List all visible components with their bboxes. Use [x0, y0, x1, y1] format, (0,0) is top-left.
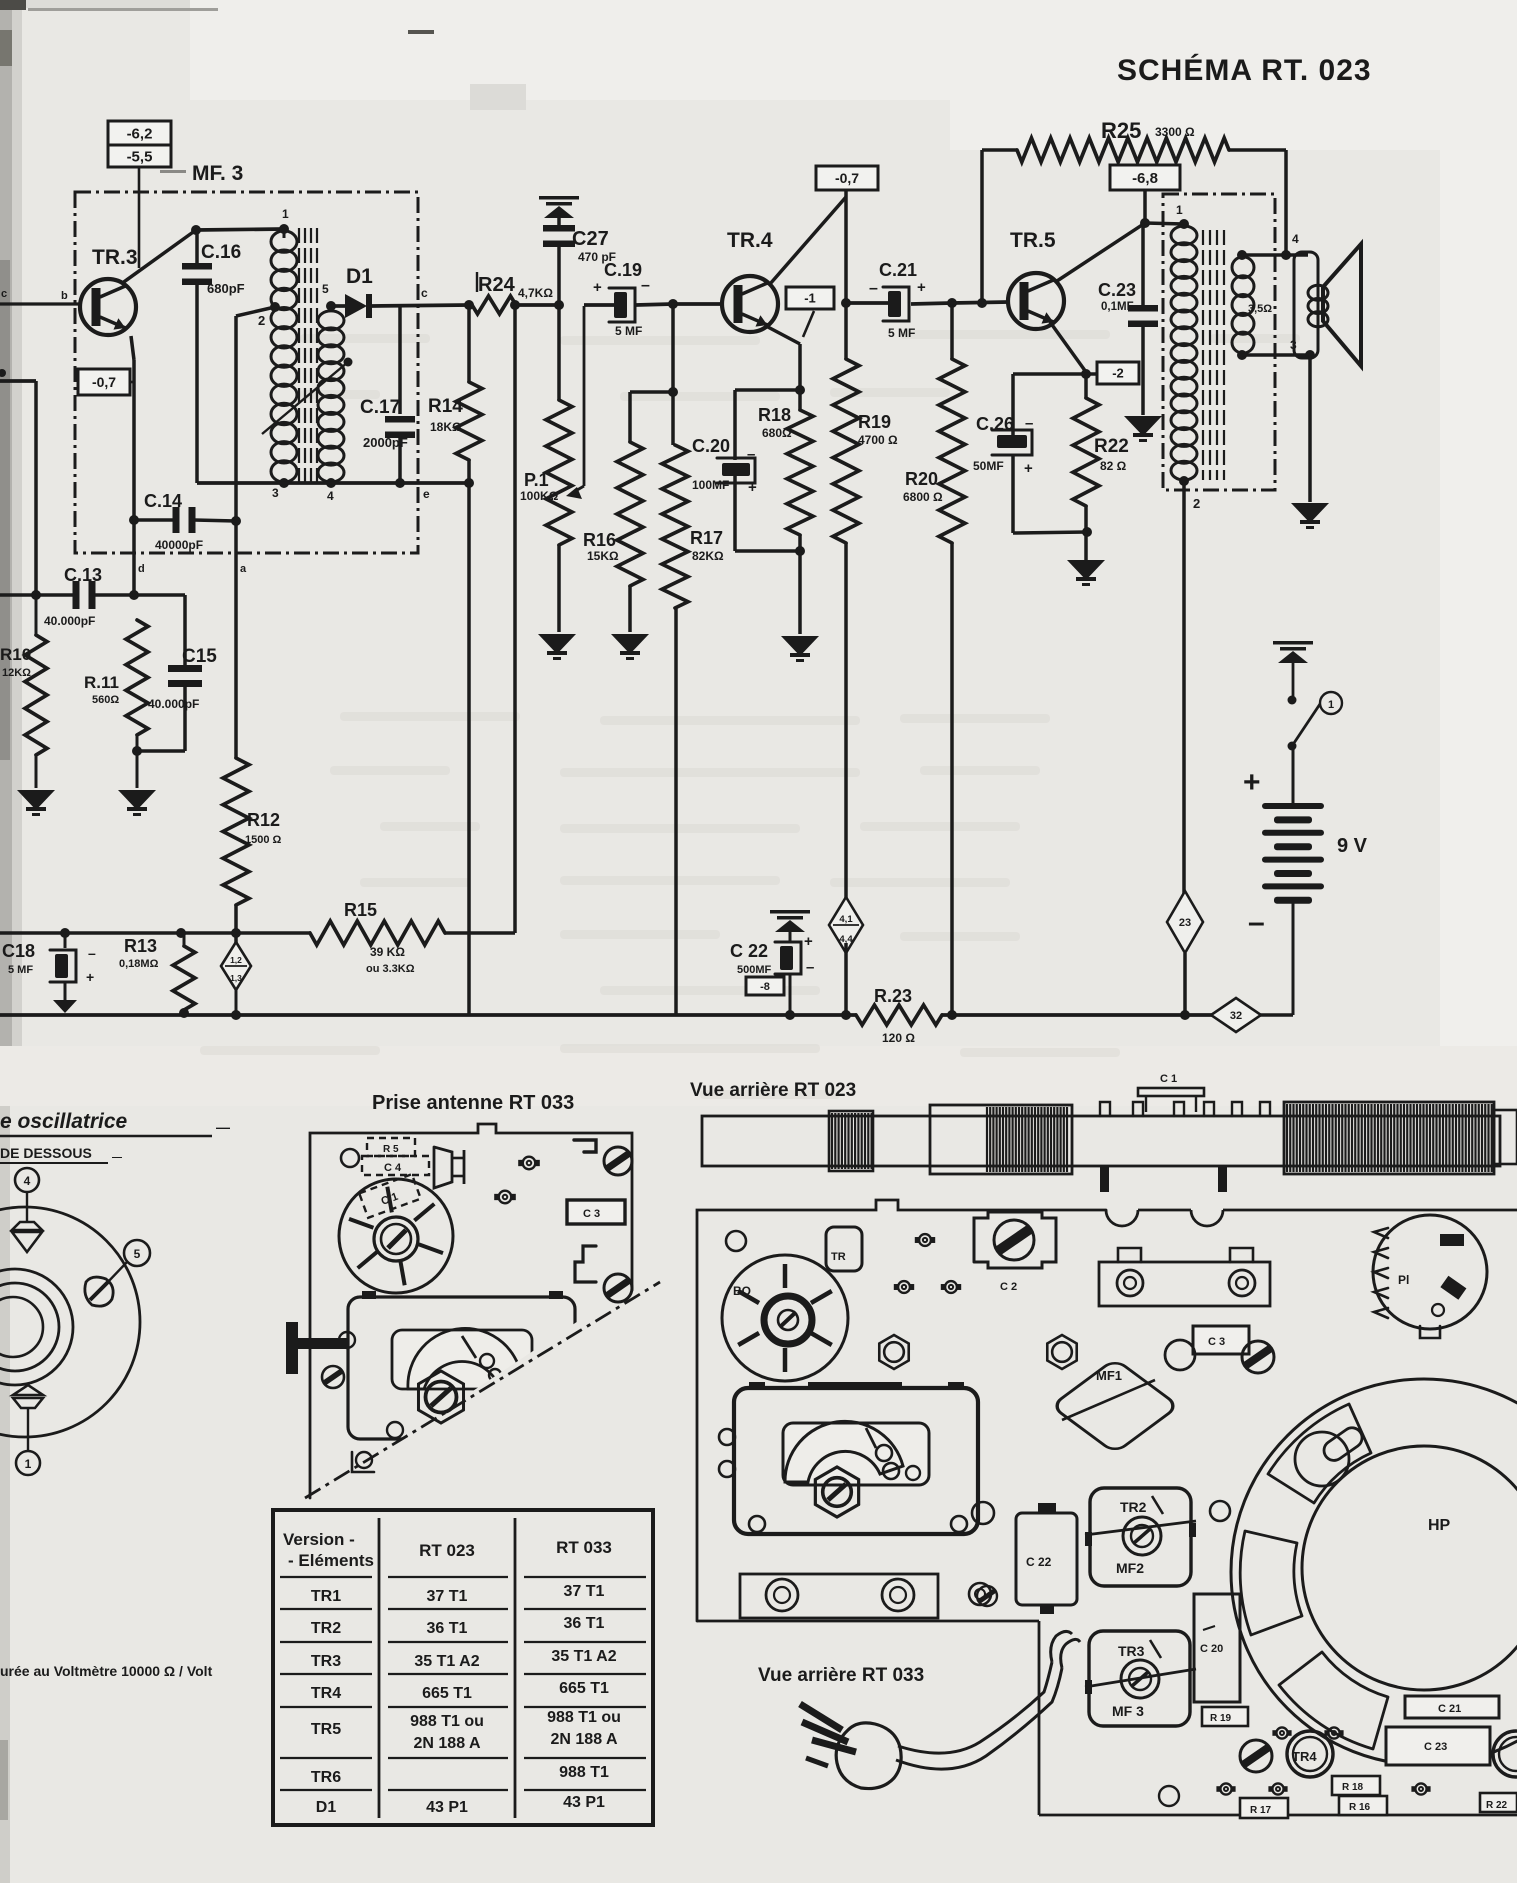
capacitor C20 — [692, 390, 800, 551]
RT033 nut b — [494, 1191, 516, 1204]
version table frame — [273, 1510, 653, 1825]
svg-text:5 MF: 5 MF — [888, 326, 915, 340]
oscillator coil circled 4 — [15, 1168, 39, 1192]
RT023 screw mid — [1242, 1341, 1274, 1373]
RT023 box R19 — [1202, 1707, 1248, 1726]
heading DE DESSOUS — [0, 1145, 122, 1163]
svg-text:2: 2 — [1193, 496, 1200, 511]
RT023 nut row b — [894, 1281, 961, 1293]
svg-text:Vue arrière RT 023: Vue arrière RT 023 — [690, 1080, 856, 1101]
svg-text:TR4: TR4 — [311, 1685, 341, 1702]
svg-text:RT 033: RT 033 — [556, 1538, 612, 1557]
svg-text:C.23: C.23 — [1098, 280, 1136, 300]
svg-text:4: 4 — [327, 489, 334, 503]
oscillator coil body — [0, 1207, 140, 1437]
svg-text:4700 Ω: 4700 Ω — [858, 433, 898, 447]
svg-text:RT 023: RT 023 — [419, 1541, 475, 1560]
label TR.5 — [1010, 229, 1056, 252]
RT023 screw small a — [972, 1502, 994, 1524]
label a — [240, 563, 247, 575]
node R16 jog — [668, 387, 678, 397]
svg-text:TR4: TR4 — [1292, 1749, 1317, 1764]
svg-text:1: 1 — [1328, 699, 1334, 711]
svg-text:–: – — [1248, 906, 1265, 939]
node pin 5 — [326, 301, 336, 311]
transistor TR.5 — [1008, 273, 1064, 329]
svg-text:680Ω: 680Ω — [762, 426, 792, 440]
oscillator coil circled 5 — [124, 1240, 150, 1266]
svg-text:ou 3.3KΩ: ou 3.3KΩ — [366, 963, 415, 975]
svg-text:C 3: C 3 — [1208, 1336, 1225, 1348]
svg-text:-2: -2 — [1112, 366, 1124, 381]
svg-text:TR2: TR2 — [311, 1620, 341, 1637]
svg-text:+: + — [917, 279, 926, 296]
svg-text:C 21: C 21 — [1438, 1703, 1461, 1715]
svg-text:5 MF: 5 MF — [8, 964, 33, 976]
RT023 trimmer C2 — [974, 1212, 1056, 1293]
wire AGC drop x469 — [467, 483, 471, 1015]
svg-text:b: b — [61, 290, 68, 302]
svg-text:+: + — [1243, 766, 1261, 799]
svg-text:37 T1: 37 T1 — [564, 1583, 605, 1600]
svg-text:40.000pF: 40.000pF — [148, 697, 199, 711]
svg-text:120 Ω: 120 Ω — [882, 1031, 915, 1045]
node R18 top — [795, 385, 805, 395]
svg-text:R12: R12 — [247, 810, 280, 830]
switch terminal bottom — [1288, 742, 1297, 751]
svg-text:C.17: C.17 — [360, 397, 400, 418]
svg-text:Vue arrière RT 033: Vue arrière RT 033 — [758, 1665, 924, 1686]
RT033 small hole — [341, 1149, 359, 1167]
wire R19 to bottom rail — [844, 943, 848, 1015]
svg-text:50MF: 50MF — [973, 459, 1004, 473]
capacitor C26 — [973, 374, 1087, 533]
svg-text:1,3: 1,3 — [230, 973, 242, 983]
wire detector bottom rail — [197, 481, 469, 485]
svg-text:R 16: R 16 — [1349, 1802, 1371, 1813]
ferrite rod antenna — [702, 1102, 1517, 1174]
node R11 C15 — [132, 746, 142, 756]
resistor R19 — [833, 303, 898, 905]
RT023 TR3 MF3 can — [1085, 1631, 1196, 1726]
wire switch to battery — [1292, 746, 1295, 803]
svg-text:P.1: P.1 — [524, 470, 549, 490]
svg-text:5: 5 — [134, 1247, 141, 1261]
svg-text:–: – — [747, 446, 755, 463]
output transformer secondary coil — [1232, 257, 1272, 353]
svg-text:2N 188 A: 2N 188 A — [551, 1731, 618, 1748]
svg-text:d: d — [138, 563, 145, 575]
tap pin 2 wire to AVC line — [236, 302, 280, 521]
wire secondary top to speaker — [1242, 232, 1308, 255]
IF transformer secondary coil pin5-4 — [318, 282, 344, 503]
RT023 hexnut washer b — [1047, 1335, 1076, 1369]
svg-text:39 KΩ: 39 KΩ — [370, 945, 405, 959]
wire TR5 base — [952, 302, 1009, 303]
svg-text:R22: R22 — [1094, 436, 1129, 457]
capacitor C22 — [730, 910, 814, 1020]
node TR4 base / R16 R17 — [668, 299, 678, 309]
svg-text:c: c — [1, 288, 7, 300]
title SCHÉMA RT. 023 — [1117, 53, 1372, 87]
svg-text:40.000pF: 40.000pF — [44, 614, 95, 628]
RT023 box R22 — [1480, 1793, 1517, 1812]
svg-text:R 22: R 22 — [1486, 1800, 1508, 1811]
IF transformer primary coil pin1-3 — [271, 207, 297, 500]
svg-text:4,7KΩ: 4,7KΩ — [518, 286, 553, 300]
node speaker top / R25 — [1281, 250, 1291, 260]
svg-text:urée au Voltmètre 10000 Ω /: urée au Voltmètre 10000 Ω / Volt — [0, 1663, 213, 1679]
svg-text:HP: HP — [1428, 1517, 1451, 1534]
svg-text:c: c — [421, 286, 428, 300]
RT023 hole mid — [1165, 1340, 1195, 1370]
RT023 tuning gang — [719, 1382, 978, 1534]
svg-text:C 3: C 3 — [583, 1208, 600, 1220]
node R24 right — [510, 300, 520, 310]
svg-text:TR.5: TR.5 — [1010, 229, 1056, 252]
TR3 emitter wire — [131, 336, 134, 595]
RT023 hole near TR2 — [1210, 1501, 1230, 1521]
diamond node 32 — [1211, 998, 1261, 1032]
resistor R15 — [310, 900, 445, 975]
table rows — [311, 1583, 621, 1816]
svg-text:C.20: C.20 — [692, 436, 730, 456]
chassis ground above switch — [1273, 641, 1313, 700]
node C17 top? bottom rail — [395, 478, 405, 488]
node secondary bottom — [1237, 350, 1247, 360]
svg-text:-1: -1 — [804, 291, 816, 306]
svg-text:R19: R19 — [858, 412, 891, 432]
svg-text:MF2: MF2 — [1116, 1560, 1144, 1576]
RT023 box R16 — [1339, 1796, 1387, 1815]
RT023 screw small b — [977, 1586, 997, 1606]
svg-text:40000pF: 40000pF — [155, 538, 203, 552]
svg-text:C 22: C 22 — [730, 941, 768, 961]
svg-text:5: 5 — [322, 282, 329, 296]
RT023 hole small bottom — [1159, 1786, 1179, 1806]
tuning slug arrow — [262, 358, 353, 435]
oscillator coil circled 1 — [16, 1451, 40, 1475]
label 9 V — [1337, 835, 1368, 857]
svg-text:TR: TR — [831, 1251, 846, 1263]
diode D1 — [331, 294, 470, 318]
svg-text:–: – — [641, 277, 650, 294]
label MF.3 — [192, 162, 243, 185]
ground under speaker — [1291, 503, 1329, 529]
svg-text:37 T1: 37 T1 — [427, 1588, 468, 1605]
RT023 TR4 transistor — [1287, 1731, 1333, 1777]
diamond node 4,1/4,4 — [829, 897, 863, 953]
svg-text:a: a — [240, 563, 247, 575]
IF transformer core — [299, 228, 317, 488]
wire TR5 emitter — [1050, 322, 1086, 372]
svg-text:2N 188 A: 2N 188 A — [414, 1735, 481, 1752]
ground under R22 — [1067, 560, 1105, 586]
RT023 TR5 transistor partial — [1493, 1731, 1517, 1777]
svg-text:C.16: C.16 — [201, 242, 241, 263]
svg-text:35 T1 A2: 35 T1 A2 — [551, 1648, 616, 1665]
bottom supply rail — [0, 1013, 1212, 1017]
RT033 coil former funnel — [434, 1147, 464, 1188]
RT023 capacitor C20 rect — [1194, 1594, 1240, 1702]
svg-text:–: – — [869, 280, 878, 297]
RT023 capacitor C22 can — [1016, 1503, 1077, 1614]
wire TR4 collector — [770, 190, 846, 303]
RT023 box C3 — [1193, 1326, 1249, 1354]
RT023 box C21 — [1405, 1696, 1499, 1718]
svg-text:TR.3: TR.3 — [92, 246, 138, 269]
svg-text:C 22: C 22 — [1026, 1555, 1052, 1569]
svg-text:12KΩ: 12KΩ — [2, 667, 31, 679]
svg-text:+: + — [1024, 460, 1033, 477]
node pin 3 — [279, 478, 289, 488]
svg-text:R 17: R 17 — [1250, 1805, 1272, 1816]
svg-text:–: – — [1025, 415, 1033, 432]
capacitor C13 — [0, 565, 134, 628]
svg-text:R18: R18 — [758, 405, 791, 425]
RT023 TR2 MF2 can — [1085, 1488, 1196, 1586]
label D1 — [346, 265, 373, 288]
switch terminal top — [1288, 696, 1297, 705]
RT033 board outline — [305, 1124, 660, 1498]
svg-text:e oscillatrice: e oscillatrice — [0, 1110, 128, 1133]
svg-text:-5,5: -5,5 — [127, 148, 153, 165]
svg-text:C.13: C.13 — [64, 565, 102, 585]
diamond node 23 — [1167, 891, 1203, 953]
node pin 1 — [279, 224, 289, 234]
label + battery — [1243, 766, 1261, 799]
node R20 rail — [947, 1010, 957, 1020]
RT033 edge bracket mid — [575, 1246, 596, 1282]
wire TR5 collector — [1057, 190, 1145, 281]
svg-text:- Eléments: - Eléments — [288, 1551, 374, 1570]
node TR5 collector — [1140, 218, 1150, 228]
svg-text:C27: C27 — [572, 228, 609, 250]
svg-text:R16: R16 — [583, 530, 616, 550]
wire secondary bottom to speaker — [1242, 338, 1310, 355]
transistor TR.3 — [80, 279, 136, 335]
resistor R16 — [583, 392, 673, 632]
svg-text:43 P1: 43 P1 — [563, 1794, 605, 1811]
svg-text:Pl: Pl — [1398, 1273, 1409, 1287]
output transformer core — [1203, 230, 1224, 480]
RT033 screw right mid — [604, 1274, 632, 1302]
label TR.4 — [727, 229, 773, 252]
ground under R10 — [17, 790, 55, 816]
table header texts — [283, 1530, 612, 1570]
voltage box -1 — [786, 287, 834, 337]
RT033 nut a — [518, 1157, 540, 1170]
AVC line y933 — [0, 931, 515, 935]
svg-text:TR2: TR2 — [1120, 1499, 1147, 1515]
svg-text:+: + — [804, 933, 813, 950]
wire base of TR3 from left edge — [0, 288, 81, 304]
RT023 nut e — [1272, 1727, 1343, 1738]
svg-text:665 T1: 665 T1 — [559, 1680, 609, 1697]
label TR.3 — [92, 246, 138, 269]
label d — [138, 563, 145, 575]
svg-text:32: 32 — [1230, 1010, 1242, 1022]
resistor R11 — [84, 620, 148, 751]
RT033 trimmer capacitor C1 body — [339, 1179, 453, 1293]
RT023 nut row a — [915, 1234, 935, 1246]
RT023 hexnut washer a — [879, 1335, 908, 1369]
node R19 top — [841, 298, 851, 308]
RT023 bracket with nuts — [1099, 1248, 1270, 1306]
RT023 hole top left — [726, 1231, 746, 1251]
RT033 dashed label C1 — [359, 1174, 421, 1218]
svg-text:D1: D1 — [316, 1799, 337, 1816]
svg-text:-6,2: -6,2 — [127, 125, 153, 142]
RT033 box C3 — [567, 1200, 625, 1224]
svg-text:D1: D1 — [346, 265, 373, 288]
node R12 AVC — [231, 928, 241, 938]
circled 1 switch label — [1320, 692, 1342, 714]
dashed box MF3 — [75, 192, 418, 553]
svg-text:100MF: 100MF — [692, 478, 729, 492]
svg-text:R 19: R 19 — [1210, 1713, 1232, 1724]
capacitor C19 — [584, 260, 673, 338]
label c node — [421, 286, 428, 300]
node R19 rail — [841, 1010, 851, 1020]
voltage box -6,8 — [1110, 165, 1180, 190]
resistor R22 — [1073, 374, 1129, 532]
node C13 R11 — [129, 590, 139, 600]
svg-text:2000pF: 2000pF — [363, 435, 408, 450]
svg-text:1,2: 1,2 — [230, 955, 242, 965]
svg-text:680pF: 680pF — [207, 281, 245, 296]
svg-text:Prise antenne RT 033: Prise antenne RT 033 — [372, 1092, 574, 1114]
oscillator coil screw 4 — [12, 1192, 42, 1252]
RT023 potentiometer P1 rear — [1373, 1215, 1487, 1338]
wire battery to rail — [1260, 903, 1293, 1015]
svg-text:R.11: R.11 — [84, 673, 119, 692]
svg-text:82 Ω: 82 Ω — [1100, 459, 1127, 473]
svg-text:SCHÉMA RT. 023: SCHÉMA RT. 023 — [1117, 53, 1372, 87]
capacitor C15 — [134, 595, 217, 751]
RT023 screw near TR4 — [1240, 1740, 1272, 1772]
node pin 2 output — [1179, 476, 1189, 486]
wire R18 to ground — [798, 551, 802, 634]
svg-text:1: 1 — [1176, 203, 1183, 217]
resistor R18 — [758, 390, 813, 551]
RT033 dashed box C4 — [362, 1156, 429, 1175]
ground under C23 — [1124, 416, 1162, 442]
resistor R14 — [428, 305, 482, 483]
svg-text:-6,8: -6,8 — [1132, 170, 1158, 187]
node R20 top — [947, 298, 957, 308]
svg-text:15KΩ: 15KΩ — [587, 549, 619, 563]
svg-text:DE DESSOUS: DE DESSOUS — [0, 1145, 92, 1161]
RT033 edge bracket top — [574, 1140, 596, 1152]
svg-text:C15: C15 — [182, 646, 217, 667]
node R14 top — [464, 300, 474, 310]
diamond node 1,2/1,3 — [221, 942, 251, 990]
heading Vue arriere RT 033 — [758, 1665, 924, 1686]
resistor R23 — [856, 986, 942, 1045]
svg-text:C 23: C 23 — [1424, 1741, 1447, 1753]
wire from voltage box to TR3 collector — [121, 167, 284, 284]
svg-text:4: 4 — [1292, 232, 1299, 246]
svg-text:82KΩ: 82KΩ — [692, 549, 724, 563]
wire TR4 emitter — [766, 326, 800, 390]
wire speaker to ground — [1308, 355, 1312, 502]
svg-text:23: 23 — [1179, 917, 1191, 929]
svg-text:100KΩ: 100KΩ — [520, 489, 559, 503]
svg-text:1: 1 — [25, 1457, 32, 1471]
node pin 1 output — [1179, 219, 1189, 229]
svg-text:C 2: C 2 — [1000, 1281, 1017, 1293]
RT033 power plug — [800, 1704, 901, 1789]
transistor TR.4 — [722, 276, 778, 332]
svg-text:-8: -8 — [760, 981, 770, 993]
svg-text:C.26: C.26 — [976, 414, 1014, 434]
wire R16 R17 drop — [671, 304, 675, 445]
svg-text:3300 Ω: 3300 Ω — [1155, 125, 1195, 139]
svg-text:TR1: TR1 — [311, 1588, 341, 1605]
RT033 cable — [896, 1631, 1080, 1769]
svg-text:-0,7: -0,7 — [835, 170, 859, 186]
wire diamond to rail — [231, 990, 241, 1020]
svg-text:1500 Ω: 1500 Ω — [245, 834, 282, 846]
svg-text:R.23: R.23 — [874, 986, 912, 1006]
svg-text:4,1: 4,1 — [839, 914, 853, 925]
resistor R25 — [977, 118, 1286, 308]
ground under R18 — [781, 636, 819, 662]
label - battery — [1248, 906, 1265, 939]
RT023 box R18 — [1332, 1776, 1380, 1795]
svg-text:6800 Ω: 6800 Ω — [903, 490, 943, 504]
wire collector to primary pin 1 — [1145, 203, 1184, 224]
switch 1 lever — [1292, 704, 1320, 746]
svg-text:36 T1: 36 T1 — [564, 1615, 605, 1632]
ground under R16 — [611, 634, 649, 660]
wire TR4 base — [673, 302, 722, 306]
svg-text:3,5Ω: 3,5Ω — [1248, 303, 1272, 315]
svg-text:C 20: C 20 — [1200, 1643, 1223, 1655]
ground under P1 — [538, 634, 576, 660]
svg-text:TR3: TR3 — [311, 1653, 341, 1670]
svg-text:36 T1: 36 T1 — [427, 1620, 468, 1637]
capacitor C23 — [1098, 223, 1158, 415]
node secondary top — [1237, 250, 1247, 260]
svg-text:0,1MF: 0,1MF — [1101, 301, 1134, 313]
svg-text:988 T1 ou: 988 T1 ou — [547, 1709, 621, 1726]
svg-text:–: – — [806, 959, 814, 976]
wire pin2 to bottom rail — [1182, 481, 1186, 899]
svg-text:560Ω: 560Ω — [92, 694, 119, 706]
capacitor C21 — [846, 260, 952, 340]
RT023 mounting bar with washers — [740, 1574, 991, 1618]
svg-text:43 P1: 43 P1 — [426, 1799, 468, 1816]
RT033 board bottom tab — [352, 1452, 374, 1472]
RT023 chassis outline — [697, 1200, 1517, 1815]
note voltmetre — [0, 1663, 213, 1679]
wire R22 to ground — [1084, 532, 1088, 560]
svg-text:35 T1 A2: 35 T1 A2 — [414, 1653, 479, 1670]
svg-text:R 5: R 5 — [383, 1144, 399, 1155]
resistor R17 — [662, 445, 724, 1015]
ground under R11 — [118, 790, 156, 816]
svg-text:500MF: 500MF — [737, 964, 772, 976]
wire left edge to R10 — [0, 369, 41, 600]
wire AVC drop x515 — [513, 305, 517, 933]
svg-text:—: — — [216, 1119, 230, 1135]
svg-text:R 18: R 18 — [1342, 1782, 1364, 1793]
resistor R13 — [119, 928, 195, 1018]
voltage box -0,7 TR4 — [816, 166, 878, 190]
resistor R10 — [0, 595, 47, 788]
